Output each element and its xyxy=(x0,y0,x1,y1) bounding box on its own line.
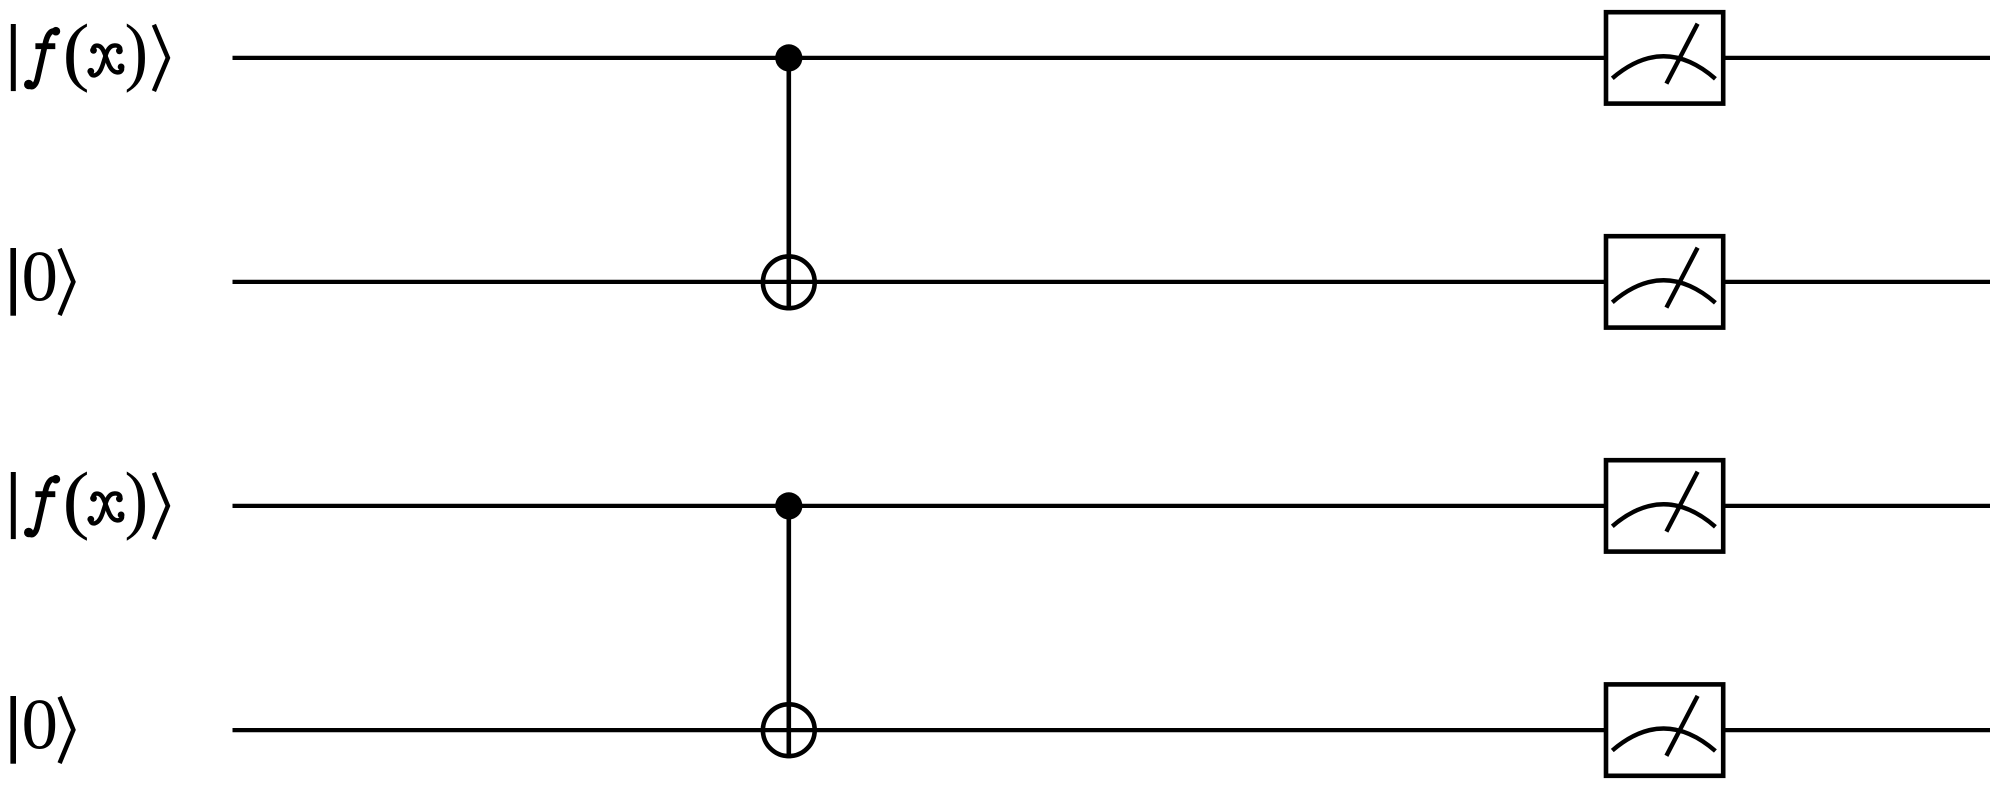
ket label |f(x)> qubit 1 xyxy=(11,8,168,94)
wire qubit 3 xyxy=(233,504,1991,508)
CNOT 2 control dot qubit 3 xyxy=(775,492,802,519)
svg-text:(: ( xyxy=(63,457,90,542)
measurement meter M1 qubit 1 xyxy=(1606,12,1723,103)
svg-text:): ) xyxy=(124,456,148,541)
ket label |0> qubit 2 xyxy=(10,237,73,316)
svg-text:(: ( xyxy=(63,9,90,94)
svg-text:0: 0 xyxy=(21,685,57,764)
CNOT 1 vertical link wire xyxy=(786,58,791,311)
measurement meter M4 qubit 4 xyxy=(1606,684,1723,775)
ket label |0> qubit 4 xyxy=(10,685,73,764)
wire qubit 4 xyxy=(233,728,1991,732)
wire qubit 1 xyxy=(233,56,1991,60)
ket label |f(x)> qubit 3 xyxy=(11,456,168,542)
measurement meter M2 qubit 2 xyxy=(1606,236,1723,327)
CNOT 1 control dot qubit 1 xyxy=(775,44,802,71)
measurement meter M3 qubit 3 xyxy=(1606,460,1723,551)
CNOT 1 target oplus qubit 2 xyxy=(763,256,815,308)
wire qubit 2 xyxy=(233,280,1991,284)
svg-text:): ) xyxy=(124,8,148,93)
svg-text:0: 0 xyxy=(21,237,57,316)
CNOT 2 target oplus qubit 4 xyxy=(763,704,815,756)
CNOT 2 vertical link wire xyxy=(786,506,791,758)
